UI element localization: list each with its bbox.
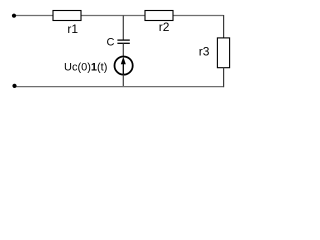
resistor r1 <box>53 11 81 37</box>
wire r3 branch upper <box>223 15 225 38</box>
svg-text:r2: r2 <box>159 20 170 34</box>
wire source to bottom <box>122 75 124 87</box>
svg-text:r1: r1 <box>67 22 78 36</box>
wire bottom horizontal <box>15 86 224 88</box>
resistor r3 <box>199 38 230 68</box>
wire r3 branch lower <box>223 68 225 88</box>
svg-text:Uc(0)1(t): Uc(0)1(t) <box>64 62 107 74</box>
wire capacitor to source <box>122 43 124 57</box>
svg-text:C: C <box>107 37 115 49</box>
wire capacitor branch upper <box>122 16 124 41</box>
resistor r2 <box>145 11 173 35</box>
node bottom-left terminal <box>12 84 16 88</box>
svg-text:r3: r3 <box>199 45 210 59</box>
capacitor C <box>107 37 130 49</box>
wire top horizontal <box>14 15 224 17</box>
node top-left terminal <box>12 14 16 18</box>
source Uc(0)1(t) <box>64 57 133 75</box>
